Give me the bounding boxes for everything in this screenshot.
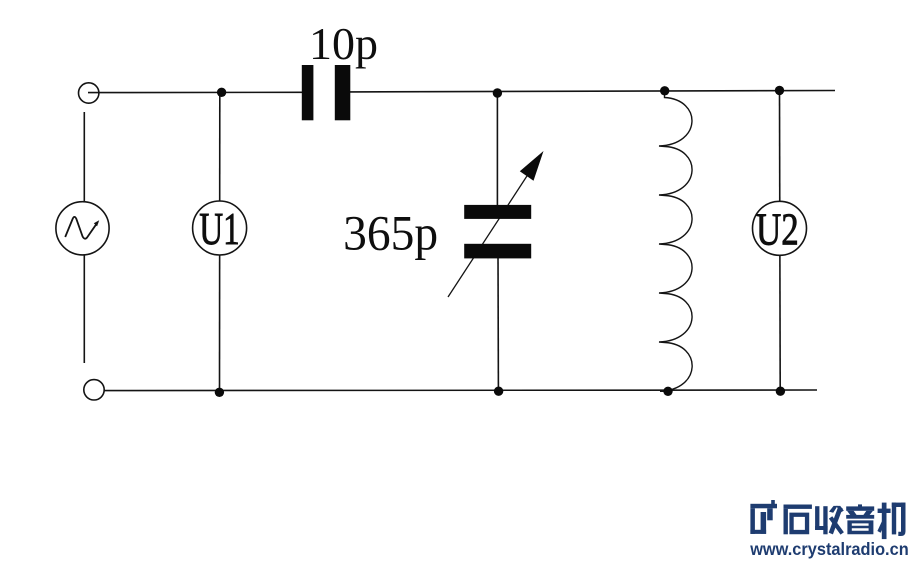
capacitor C1 right plate: [335, 65, 351, 120]
wire bottom rail: [104, 389, 817, 392]
AC source V1 sine arrow tip: [94, 220, 99, 226]
voltmeter U2 circle: [753, 201, 807, 255]
inductor L1 coil: [659, 91, 692, 392]
junction dot bottom L1: [663, 387, 672, 396]
AC source V1 sine wave: [65, 217, 97, 239]
wire source bottom: [83, 255, 85, 363]
AC source V1 circle: [56, 202, 109, 255]
variable capacitor C2 bottom plate: [464, 244, 531, 259]
capacitor C1 left plate: [302, 65, 314, 120]
junction dot bottom U2: [776, 387, 785, 396]
svg-text:10p: 10p: [309, 18, 378, 69]
logo char shi: [784, 505, 812, 535]
watermark logo 矿石收音机: [750, 500, 905, 539]
variable capacitor C2 arrow shaft: [448, 156, 540, 297]
wire C2 branch bottom: [497, 252, 499, 391]
wire source top: [83, 112, 85, 202]
svg-text:U2: U2: [756, 204, 799, 255]
terminal circle top-left: [79, 83, 99, 103]
junction dot top U1: [217, 88, 226, 97]
logo char ji: [877, 503, 905, 539]
junction dot top L1: [660, 86, 669, 95]
voltmeter U1 circle: [193, 201, 247, 255]
terminal circle bottom-left: [84, 380, 104, 400]
junction dot bottom C2: [494, 387, 503, 396]
junction dot top U2: [775, 86, 784, 95]
variable capacitor C2 arrow head: [520, 151, 544, 181]
variable capacitor C2 top plate: [464, 205, 531, 219]
junction dot bottom U1: [215, 388, 224, 397]
logo char yin: [846, 504, 874, 534]
junction dot top C2: [493, 88, 502, 97]
wire U1 branch: [219, 92, 221, 391]
svg-text:365p: 365p: [343, 206, 438, 261]
wire U2 branch: [779, 91, 782, 392]
logo char kuang: [750, 500, 777, 534]
wire C2 branch top: [496, 93, 498, 211]
svg-text:U1: U1: [199, 203, 239, 255]
logo char shou: [815, 506, 844, 535]
wire top rail right segment: [350, 91, 836, 92]
wire top rail left segment: [88, 91, 303, 93]
svg-text:www.crystalradio.cn: www.crystalradio.cn: [749, 538, 908, 559]
